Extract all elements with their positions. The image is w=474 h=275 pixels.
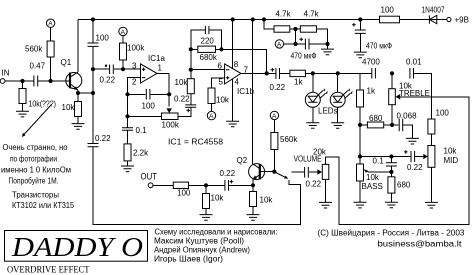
wire: volume top to tone output loop bbox=[326, 97, 469, 225]
junction 100k bias bbox=[121, 67, 125, 71]
resistor 100 (to MID) bbox=[430, 97, 432, 146]
svg-text:DADDY O: DADDY O bbox=[11, 232, 143, 262]
junction IC1b pin6 node bbox=[189, 68, 193, 72]
svg-text:560k: 560k bbox=[25, 45, 43, 54]
svg-text:0.22: 0.22 bbox=[407, 163, 423, 172]
potentiometer 10k MID bbox=[428, 146, 435, 168]
junction output/feedback bbox=[265, 71, 269, 75]
svg-text:A: A bbox=[121, 29, 126, 36]
resistor 560k (Q2 bias) bbox=[273, 120, 275, 172]
wire: rail to divider bbox=[264, 20, 274, 30]
wire: Q1 collector to rail bbox=[77, 20, 79, 73]
junction rail/Q2 drop bbox=[251, 17, 255, 21]
svg-text:1N4007: 1N4007 bbox=[422, 6, 445, 15]
potentiometer 100k (gain) wiper arrow bbox=[168, 94, 170, 106]
svg-text:10k: 10k bbox=[175, 78, 189, 87]
junction output/feedback cap bbox=[167, 92, 171, 96]
capacitor 100 (IC1a feedback) bbox=[128, 93, 170, 95]
resistor 680 (horizontal) bbox=[360, 124, 392, 126]
transistor Q2 bbox=[237, 156, 265, 180]
svg-text:2: 2 bbox=[132, 77, 137, 86]
capacitor 0.22 electrolytic (output) bbox=[225, 180, 229, 191]
svg-text:КТ3102 или КТ315: КТ3102 или КТ315 bbox=[12, 201, 74, 210]
svg-text:Игорь Шаев (Igor): Игорь Шаев (Igor) bbox=[154, 255, 223, 264]
svg-text:OVERDRIVE EFFECT: OVERDRIVE EFFECT bbox=[7, 266, 90, 275]
node A (IC1a bias) bbox=[119, 27, 127, 35]
wire: input bbox=[5, 80, 71, 82]
op-amp IC1b bbox=[218, 62, 255, 97]
capacitor 0.1 (bass wiper) bbox=[390, 157, 392, 172]
wire: pin 6 bbox=[191, 69, 225, 71]
resistor 10k (Q2 emitter) bbox=[252, 185, 254, 214]
potentiometer 20k VOLUME bbox=[322, 164, 329, 179]
junction 680/treble bottom bbox=[390, 123, 394, 127]
wire: IC1a output down bbox=[157, 73, 169, 94]
node OUT terminal bbox=[148, 183, 153, 188]
resistor 560k (Q1 bias) bbox=[50, 27, 52, 81]
treble wiper arrow bbox=[400, 96, 432, 98]
junction treble top bbox=[390, 71, 394, 75]
MID wiper arrow bbox=[423, 154, 428, 160]
svg-text:A: A bbox=[277, 41, 282, 48]
wire: cap to ground drop bbox=[310, 44, 328, 49]
svg-text:10k(???): 10k(???) bbox=[29, 100, 57, 109]
svg-text:470 мкФ: 470 мкФ bbox=[366, 42, 392, 51]
op-amp IC1a bbox=[132, 54, 165, 86]
junction output/10k bbox=[204, 183, 208, 187]
svg-text:5: 5 bbox=[219, 78, 224, 87]
junction divider middle bbox=[293, 27, 297, 31]
ground bass bbox=[354, 202, 367, 208]
resistor 100 (output) bbox=[153, 184, 206, 186]
wire: IC1b output bbox=[241, 72, 276, 74]
transistor Q1 bbox=[61, 58, 82, 90]
svg-text:220: 220 bbox=[201, 37, 215, 46]
wire: cap to pin 3 bbox=[114, 68, 141, 70]
ground supply filter bbox=[354, 52, 367, 58]
resistor 100k (IC1a bias) bbox=[122, 36, 124, 70]
svg-text:именно 1 0 КилоОм: именно 1 0 КилоОм bbox=[1, 166, 71, 175]
svg-text:0.1: 0.1 bbox=[136, 126, 148, 135]
wire: left loop upper bbox=[92, 93, 94, 143]
junction rail/divider bbox=[262, 17, 266, 21]
wire: feedback right riser bbox=[209, 30, 221, 49]
ground Q1 emitter bbox=[72, 124, 85, 130]
ground 680 bbox=[385, 202, 398, 208]
resistor 10k(???) input bbox=[22, 81, 24, 111]
svg-text:0.22: 0.22 bbox=[270, 83, 286, 92]
capacitor *0.22 (to IC1a pin3) bbox=[110, 65, 114, 75]
capacitor 0.22 electrolytic (to MID wiper) bbox=[411, 151, 415, 162]
svg-text:3: 3 bbox=[132, 62, 137, 71]
logo box DADDYO bbox=[5, 231, 148, 262]
LED D2 bbox=[330, 73, 352, 122]
svg-text:4: 4 bbox=[235, 78, 240, 87]
junction A row bbox=[293, 42, 297, 46]
svg-text:100: 100 bbox=[436, 109, 450, 118]
resistor 2.2k bbox=[124, 144, 131, 161]
svg-text:IN: IN bbox=[2, 69, 10, 78]
svg-text:4.7k: 4.7k bbox=[276, 10, 292, 19]
wire: pin 8 to rail bbox=[232, 20, 234, 69]
junction emitter/long line bbox=[91, 91, 95, 95]
svg-text:1k: 1k bbox=[367, 87, 376, 96]
potentiometer 10k BASS bbox=[357, 164, 364, 181]
wire: V+ rail bbox=[78, 19, 447, 21]
annotation arrow bbox=[24, 105, 52, 136]
node A (divider output) bbox=[275, 40, 283, 48]
ground output load bbox=[200, 215, 213, 221]
capacitor 0.1 (pin2 chain) bbox=[127, 116, 129, 144]
ground volume bbox=[319, 202, 332, 208]
wire: Q2 emitter down bbox=[252, 180, 254, 186]
wire: divider right to ground drop bbox=[317, 29, 328, 44]
svg-text:IC1a: IC1a bbox=[148, 54, 165, 63]
svg-text:0.22: 0.22 bbox=[220, 169, 236, 178]
svg-text:680: 680 bbox=[397, 181, 411, 190]
capacitor 0.47 bbox=[34, 76, 38, 87]
junction input/10k bbox=[20, 79, 24, 83]
ground divider bbox=[321, 49, 334, 55]
svg-text:0.47: 0.47 bbox=[30, 62, 46, 71]
svg-text:560k: 560k bbox=[280, 135, 298, 144]
svg-text:Схему исследовали и нарисовали: Схему исследовали и нарисовали: bbox=[155, 228, 278, 237]
svg-text:100k: 100k bbox=[162, 121, 180, 130]
svg-text:Q2: Q2 bbox=[237, 156, 248, 165]
svg-text:0.22: 0.22 bbox=[306, 180, 322, 189]
svg-text:BASS: BASS bbox=[362, 182, 383, 191]
resistor 4.7k (lower divider) bbox=[300, 26, 316, 32]
resistor 4.7k (upper divider) bbox=[274, 26, 290, 32]
svg-text:10k: 10k bbox=[62, 103, 76, 112]
svg-text:IC1 = RC4558: IC1 = RC4558 bbox=[168, 138, 224, 147]
junction pin8/rail bbox=[231, 17, 235, 21]
svg-text:100k: 100k bbox=[127, 44, 145, 53]
ground LED2 bbox=[331, 123, 344, 129]
svg-text:A: A bbox=[48, 21, 53, 28]
svg-text:0.068: 0.068 bbox=[397, 112, 418, 121]
svg-text:4.7k: 4.7k bbox=[304, 10, 320, 19]
svg-text:10k: 10k bbox=[444, 147, 458, 156]
junction pin2 node / 100 cap bbox=[125, 92, 129, 96]
junction 0.1 bass bbox=[389, 154, 393, 158]
svg-text:1: 1 bbox=[158, 63, 163, 72]
svg-text:100: 100 bbox=[177, 189, 191, 198]
svg-text:2.2k: 2.2k bbox=[133, 149, 149, 158]
junction pot left bbox=[125, 114, 129, 118]
svg-text:100: 100 bbox=[96, 34, 110, 43]
LED D1 bbox=[305, 73, 327, 122]
ground Q2 emitter bbox=[247, 215, 260, 221]
svg-text:Попробуйте 1М.: Попробуйте 1М. bbox=[9, 177, 59, 186]
ground 2.2k bbox=[121, 166, 134, 172]
node +9V terminal bbox=[447, 17, 451, 21]
wire: pin 5 bbox=[212, 78, 225, 88]
wire: switch open contact to volume cap bbox=[292, 171, 305, 173]
capacitor 0.22 (left loop) bbox=[88, 144, 99, 147]
wire: pin 2 feedback node bbox=[128, 78, 141, 95]
ground pin 4 bbox=[226, 121, 239, 127]
svg-text:10k: 10k bbox=[211, 194, 225, 203]
wire: pot right to 0.22 electrolytic bbox=[178, 108, 191, 117]
junction rail/470uF bbox=[358, 17, 362, 21]
svg-text:10k: 10k bbox=[216, 96, 230, 105]
capacitor 4700 bbox=[372, 68, 376, 79]
capacitor 220 (IC1b feedback) bbox=[205, 26, 209, 34]
svg-text:Транзисторы: Транзисторы bbox=[12, 191, 59, 200]
junction bass wiper node bbox=[389, 170, 393, 174]
wire: 0.01 to treble wiper node bbox=[414, 73, 431, 96]
svg-text:Q1: Q1 bbox=[61, 58, 72, 67]
svg-text:(С) Швейцария - Россия - Литва: (С) Швейцария - Россия - Литва - 2003 bbox=[318, 229, 466, 238]
svg-text:MID: MID bbox=[444, 156, 459, 165]
svg-text:+9В: +9В bbox=[455, 16, 469, 25]
potentiometer 100k body bbox=[162, 113, 179, 120]
svg-text:100: 100 bbox=[142, 102, 156, 111]
svg-text:470 мкФ: 470 мкФ bbox=[291, 52, 317, 61]
resistor 680k (IC1b feedback) bbox=[191, 48, 222, 50]
svg-text:0.1: 0.1 bbox=[373, 157, 385, 166]
resistor 10k (IC1b pin5 bias) bbox=[208, 88, 215, 104]
wire: rail drop to Q2 collector bbox=[252, 20, 254, 165]
diode 1N4007 bbox=[422, 6, 447, 24]
wire: pot left to pin2 node bbox=[128, 94, 162, 116]
svg-text:4700: 4700 bbox=[362, 58, 380, 67]
svg-text:business@bamba.lt: business@bamba.lt bbox=[378, 240, 463, 249]
node A (Q2 bias) bbox=[270, 111, 278, 119]
junction Q1 emitter bbox=[76, 91, 80, 95]
wire: pin 4 to ground bbox=[232, 78, 234, 121]
switch arm (boost) bbox=[276, 173, 287, 178]
svg-text:VOLUME: VOLUME bbox=[294, 154, 322, 163]
wire: A node row bbox=[284, 29, 305, 44]
svg-text:6: 6 bbox=[218, 62, 223, 71]
junction 0.22 tap bbox=[91, 67, 95, 71]
wire: Q2 base bbox=[261, 171, 275, 173]
ground MID bbox=[425, 202, 438, 208]
ground input resistor bbox=[16, 111, 29, 117]
svg-text:0.01: 0.01 bbox=[406, 58, 422, 67]
svg-text:10k: 10k bbox=[366, 173, 380, 182]
node A (pin5 bias) bbox=[207, 111, 215, 119]
svg-text:100: 100 bbox=[381, 6, 395, 15]
capacitor 0.01 bbox=[410, 68, 414, 79]
capacitor 0.22 electrolytic (after IC1b) bbox=[276, 68, 280, 79]
wire: bass bottom to ground bbox=[359, 181, 361, 202]
node IN terminal bbox=[0, 79, 5, 84]
capacitor 100 (rail to emitter node) bbox=[92, 20, 94, 94]
resistor 680 (vertical) bbox=[390, 172, 392, 202]
junction rail/100 cap bbox=[91, 17, 95, 21]
svg-text:680k: 680k bbox=[200, 53, 218, 62]
junction feedback left bbox=[189, 47, 193, 51]
wire: feedback to output bbox=[221, 49, 266, 73]
svg-text:0.22: 0.22 bbox=[174, 95, 190, 104]
svg-text:A: A bbox=[209, 113, 214, 120]
svg-text:0.22: 0.22 bbox=[95, 134, 111, 143]
wire: Q1 emitter down bbox=[77, 90, 79, 93]
resistor 1k (LED drive) bbox=[280, 72, 371, 74]
junction LED2 bbox=[336, 71, 340, 75]
resistor 10k (output load) bbox=[205, 185, 207, 214]
capacitor 0.22 (to volume) bbox=[305, 167, 309, 178]
wire: bass row bbox=[360, 156, 424, 158]
wire: volume bottom to ground bbox=[325, 179, 327, 202]
svg-text:1k: 1k bbox=[294, 78, 303, 87]
wire: to coupling cap bbox=[93, 68, 109, 70]
capacitor 470 мкФ (supply filter) bbox=[359, 20, 361, 30]
ground 0.068 bbox=[406, 138, 419, 144]
junction Q2 base node bbox=[272, 170, 276, 174]
junction 680 left bbox=[358, 123, 362, 127]
node A (560k bias) bbox=[46, 19, 54, 27]
resistor 100 (supply) bbox=[380, 16, 400, 23]
junction LED1 bbox=[311, 71, 315, 75]
svg-text:8: 8 bbox=[234, 60, 239, 69]
svg-text:Андрей Опиянчук (Andrew): Андрей Опиянчук (Andrew) bbox=[154, 246, 250, 255]
capacitor 470 мкФ (A bypass) bbox=[305, 39, 309, 50]
resistor 10k (Q1 emitter) bbox=[77, 93, 79, 123]
wire: divider middle bbox=[290, 28, 301, 30]
capacitor 0.22 electrolytic (IC1b input chain) bbox=[185, 105, 196, 107]
svg-text:10k: 10k bbox=[260, 196, 274, 205]
potentiometer 10k TREBLE bbox=[391, 73, 393, 125]
wire: output row bbox=[206, 184, 253, 186]
svg-text:A: A bbox=[272, 113, 277, 120]
junction Q2 emitter bbox=[251, 183, 255, 187]
svg-text:OUT: OUT bbox=[141, 172, 158, 183]
resistor 10k (to IC1b pin6) bbox=[190, 70, 192, 105]
svg-text:680: 680 bbox=[369, 114, 383, 123]
resistor 1k (tone input) bbox=[359, 73, 361, 164]
ground LED1 bbox=[306, 123, 319, 129]
wire: 0.068 to ground bbox=[392, 125, 412, 138]
svg-text:Максим Куштуев (Pooll): Максим Куштуев (Pooll) bbox=[154, 237, 244, 246]
wire: MID bottom to ground bbox=[430, 167, 432, 202]
junction bass top bbox=[358, 154, 362, 158]
junction base/560k bbox=[49, 79, 53, 83]
svg-text:по фотографии: по фотографии bbox=[10, 155, 57, 164]
bass wiper arrow bbox=[368, 171, 391, 173]
wire: volume wiper arrow bbox=[309, 171, 318, 173]
wire: switch throw to bottom loop bbox=[93, 147, 301, 224]
svg-text:IC1b: IC1b bbox=[237, 87, 254, 96]
junction feedback right bbox=[219, 47, 223, 51]
wire: emitter row bbox=[78, 92, 93, 94]
junction divider ground node bbox=[325, 42, 329, 46]
wire: feedback left riser bbox=[191, 30, 205, 70]
svg-text:Очень странно, но: Очень странно, но bbox=[3, 143, 69, 152]
svg-text:0.22: 0.22 bbox=[100, 76, 116, 85]
capacitor 0.068 bbox=[399, 119, 403, 131]
svg-text:LEDs: LEDs bbox=[318, 107, 338, 116]
